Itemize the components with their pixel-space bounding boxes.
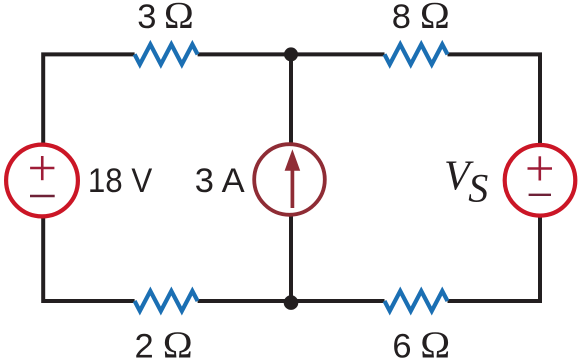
svg-text:Ω: Ω: [420, 0, 450, 37]
svg-text:8: 8: [392, 0, 411, 36]
svg-text:Ω: Ω: [420, 325, 450, 362]
svg-text:18 V: 18 V: [88, 160, 152, 199]
svg-text:3: 3: [137, 0, 156, 36]
svg-text:S: S: [468, 166, 488, 211]
svg-text:Ω: Ω: [163, 324, 193, 362]
svg-text:3 A: 3 A: [195, 162, 245, 200]
svg-text:2: 2: [135, 327, 154, 362]
svg-text:Ω: Ω: [164, 0, 194, 37]
svg-text:6: 6: [392, 328, 411, 362]
